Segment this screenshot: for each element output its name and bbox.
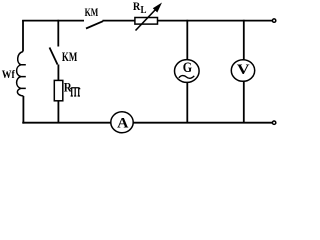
svg-text:R: R: [133, 0, 141, 13]
svg-text:A: A: [117, 115, 129, 131]
svg-text:Wf: Wf: [2, 67, 16, 81]
svg-text:R: R: [64, 80, 72, 95]
wire top bus left segment: [22, 20, 84, 22]
wire KM branch top: [57, 20, 59, 47]
svg-text:L: L: [141, 4, 147, 16]
switch KM branch blade: [50, 48, 58, 65]
wire V branch top: [243, 20, 245, 60]
terminal top right: [272, 19, 275, 22]
generator G circle: [175, 60, 200, 83]
wire G branch top: [186, 20, 188, 60]
switch KM top blade: [86, 21, 103, 28]
resistor Rm box: [54, 80, 63, 100]
ammeter A circle: [111, 112, 133, 133]
resistor RL box: [135, 18, 158, 25]
terminal bottom right: [272, 121, 275, 124]
wire V branch bottom: [243, 81, 245, 123]
generator tilde: [179, 76, 195, 79]
wire Rm to bottom bus: [57, 101, 59, 123]
wire bottom bus left segment: [22, 122, 111, 124]
inductor Wf coil: [17, 52, 26, 97]
wire left rail bottom: [22, 96, 24, 123]
wire top bus right segment: [158, 20, 272, 22]
svg-text:KM: KM: [62, 49, 77, 64]
wire left rail top: [22, 20, 24, 52]
wire G branch bottom: [186, 82, 188, 123]
wire between switch and Rm: [57, 65, 59, 81]
resistor RL arrowhead: [153, 3, 162, 13]
wire top bus mid segment: [103, 20, 135, 22]
wire bottom bus right segment: [133, 122, 272, 124]
voltmeter V circle: [231, 60, 254, 82]
label Rm subscript m (drawn): [71, 88, 81, 96]
resistor RL arrow shaft: [136, 9, 157, 31]
svg-text:G: G: [183, 60, 192, 76]
svg-text:V: V: [237, 60, 250, 77]
svg-text:KM: KM: [85, 5, 99, 19]
